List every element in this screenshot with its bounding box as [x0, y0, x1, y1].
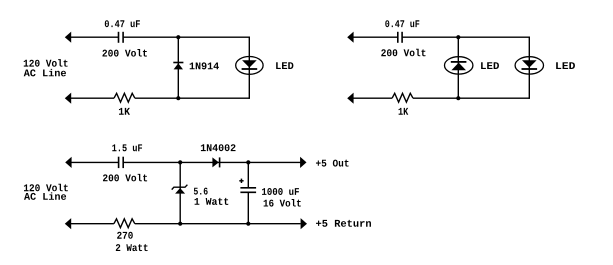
capacitor C 0.47uF circuit 2: right plate — [401, 32, 403, 43]
wire: circuit 2 bottom right segment — [413, 97, 529, 99]
arrow: +5 Out right — [300, 157, 306, 168]
label 1.50 uF — [112, 144, 142, 151]
label 1K circuit 2 — [399, 108, 409, 115]
resistor R 1K circuit 1 — [114, 93, 135, 102]
diode 1N4002 triangle — [212, 157, 218, 167]
LED D1 circuit 1 ellipse — [236, 57, 263, 75]
resistor R 1K circuit 2 — [392, 93, 413, 102]
wire: circuit 1 bottom left segment — [66, 97, 114, 99]
arrow: circuit 1 bottom left — [65, 93, 71, 104]
wire: circuit 1 top right segment — [124, 36, 250, 38]
label 200 Volt circuit 3 — [103, 174, 147, 182]
label AC Line circuit 3 — [24, 192, 66, 200]
label 270 — [117, 232, 133, 239]
label LED circuit 1 — [276, 62, 293, 69]
wire: filter cap branch lower — [247, 193, 249, 224]
capacitor C 0.47uF circuit 2: left plate — [397, 32, 399, 43]
junction dot circuit 3 cap top — [246, 160, 250, 164]
wire: circuit 1 bottom right segment — [135, 97, 249, 99]
wire: circuit 2 bottom left segment — [348, 97, 392, 99]
wire: circuit 1 right vertical (LED branch) — [248, 37, 250, 99]
wire: circuit 1 top left segment — [66, 36, 118, 38]
label 5.60 — [194, 188, 208, 195]
label 1K circuit 1 — [119, 108, 130, 115]
LED D3 circuit 2 cathode bar (bottom) — [522, 68, 538, 70]
arrow: +5 Return right — [301, 218, 307, 229]
junction dot circuit 1 bottom — [176, 96, 180, 100]
plus sign of 1000uF cap: vertical — [240, 179, 242, 183]
wire: circuit 3 bottom left segment — [66, 223, 114, 225]
wire: circuit 3 bottom right segment — [135, 223, 301, 225]
diode 1N914 cathode bar — [173, 62, 183, 64]
label 120 Volt circuit 1 — [24, 59, 68, 67]
capacitor C 1.5uF: right plate — [122, 157, 124, 168]
capacitor C 1000uF bottom plate — [240, 191, 256, 193]
resistor R 270 2W — [114, 219, 135, 228]
capacitor C 1.5uF: left plate — [118, 157, 120, 168]
arrow: circuit 2 bottom left — [347, 93, 353, 104]
LED D3 circuit 2 ellipse — [515, 57, 543, 74]
LED D2 circuit 2 cathode bar (top) — [451, 61, 467, 63]
arrow: circuit 3 bottom left — [65, 218, 71, 229]
wire: circuit 2 top right segment — [402, 36, 529, 38]
LED D1 circuit 1 cathode bar — [242, 68, 258, 70]
label LED circuit 2 right — [556, 62, 575, 69]
junction dot circuit 2 bottom — [456, 96, 460, 100]
arrow: circuit 1 top left — [65, 32, 71, 43]
wire: circuit 2 top left segment — [348, 36, 397, 38]
LED D3 triangle (down) — [522, 60, 537, 67]
label 16 Volt — [264, 199, 301, 207]
wire: circuit 3 top left segment — [66, 161, 118, 163]
label LED circuit 2 left — [481, 62, 499, 69]
zener diode Z1 triangle — [175, 188, 185, 194]
capacitor C 0.47uF circuit 1: right plate — [122, 32, 124, 43]
label 0.47 uF circuit 1 — [105, 20, 140, 27]
arrow: circuit 2 top left — [347, 32, 353, 43]
capacitor C 1000uF top plate — [240, 187, 256, 189]
label 0.47 uF circuit 2 — [385, 20, 419, 27]
wire: circuit 2 LED1 branch vertical — [457, 37, 459, 98]
label 120 Volt circuit 3 — [24, 184, 68, 192]
capacitor C 0.47uF circuit 1: left plate — [118, 32, 120, 43]
junction dot circuit 3 zener bottom — [178, 222, 182, 226]
LED D2 circuit 2 ellipse — [445, 57, 473, 74]
wire: zener branch vertical — [179, 162, 181, 223]
label +5 Out — [316, 160, 349, 167]
LED D2 triangle (up) — [451, 63, 466, 71]
plus sign of 1000uF cap: horizontal — [239, 180, 243, 182]
wire: circuit 3 top right segment — [124, 161, 301, 163]
label +5 Return — [316, 220, 371, 227]
label 2 Watt — [116, 244, 148, 251]
junction dot circuit 3 cap bottom — [246, 222, 250, 226]
label 1 Watt — [195, 198, 229, 205]
label 1000 uF — [262, 188, 299, 195]
wire: circuit 1 diode branch vertical — [177, 37, 179, 98]
wire: filter cap branch upper — [247, 162, 249, 187]
diode 1N914 triangle — [174, 63, 183, 69]
LED D1 triangle (down) — [242, 60, 257, 67]
junction dot circuit 3 zener top — [178, 160, 182, 164]
zener diode Z1 5.6V cathode bar with bent ends — [172, 185, 188, 190]
arrow: circuit 3 top left — [65, 157, 71, 168]
label 200 Volt circuit 2 — [381, 49, 425, 57]
label 1N4002 — [201, 144, 236, 151]
label AC Line circuit 1 — [24, 69, 66, 77]
diode D 1N4002 cathode bar — [219, 157, 221, 167]
label 1N914 — [190, 62, 219, 69]
junction dot circuit 1 top — [176, 35, 180, 39]
label 200 Volt circuit 1 — [102, 49, 147, 57]
wire: circuit 2 right vertical (LED2 branch) — [528, 37, 530, 99]
junction dot circuit 2 top — [456, 35, 460, 39]
